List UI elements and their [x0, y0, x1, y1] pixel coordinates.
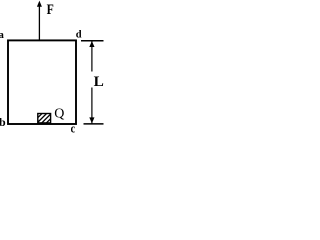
- force arrow F shaft: [38, 6, 40, 40]
- svg-text:Q: Q: [54, 106, 64, 121]
- svg-text:a: a: [0, 29, 4, 41]
- svg-text:L: L: [94, 74, 104, 90]
- dimension line lower segment: [91, 88, 93, 124]
- block Q hatched: [32, 112, 62, 124]
- svg-text:d: d: [76, 29, 82, 40]
- dimension arrow up: [89, 41, 94, 47]
- svg-text:b: b: [0, 115, 6, 129]
- box outline abcd: [8, 40, 76, 124]
- svg-text:F: F: [47, 2, 54, 18]
- dimension top tick: [81, 40, 104, 42]
- dimension bottom tick: [84, 123, 104, 125]
- force arrow F head: [37, 1, 42, 7]
- svg-text:c: c: [71, 122, 76, 134]
- dimension arrow down: [89, 117, 94, 123]
- dimension line upper segment: [91, 41, 93, 72]
